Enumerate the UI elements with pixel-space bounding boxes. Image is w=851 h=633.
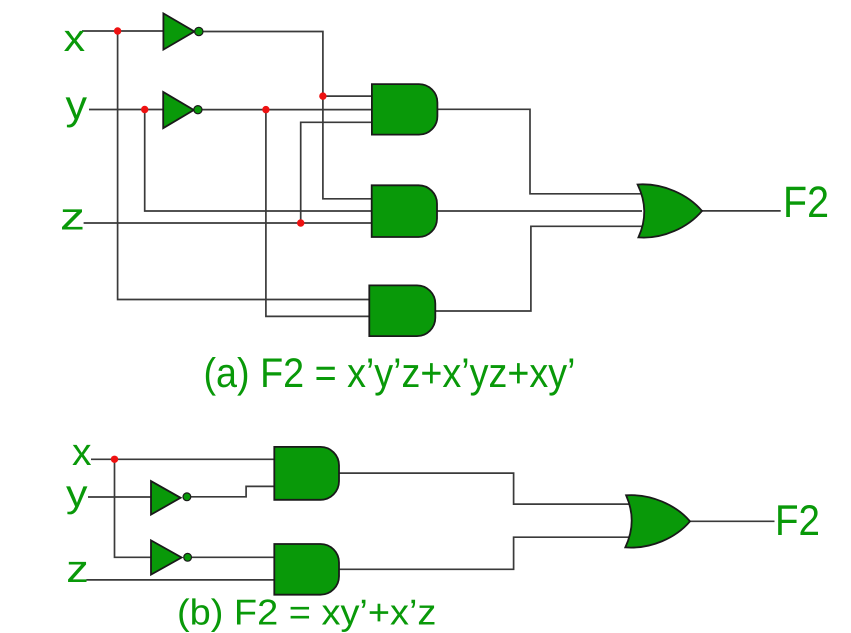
svg-text:F2: F2 (775, 497, 820, 545)
svg-text:y: y (66, 474, 88, 516)
svg-text:x: x (64, 18, 86, 60)
svg-text:(b) F2 = xy’+x’z: (b) F2 = xy’+x’z (177, 592, 436, 633)
svg-text:z: z (60, 197, 85, 239)
svg-text:z: z (66, 549, 89, 591)
svg-text:F2: F2 (783, 178, 829, 227)
svg-text:(a) F2 = x’y’z+x’yz+xy’: (a) F2 = x’y’z+x’yz+xy’ (204, 350, 576, 396)
svg-text:y: y (66, 82, 88, 128)
svg-text:x: x (72, 432, 92, 474)
